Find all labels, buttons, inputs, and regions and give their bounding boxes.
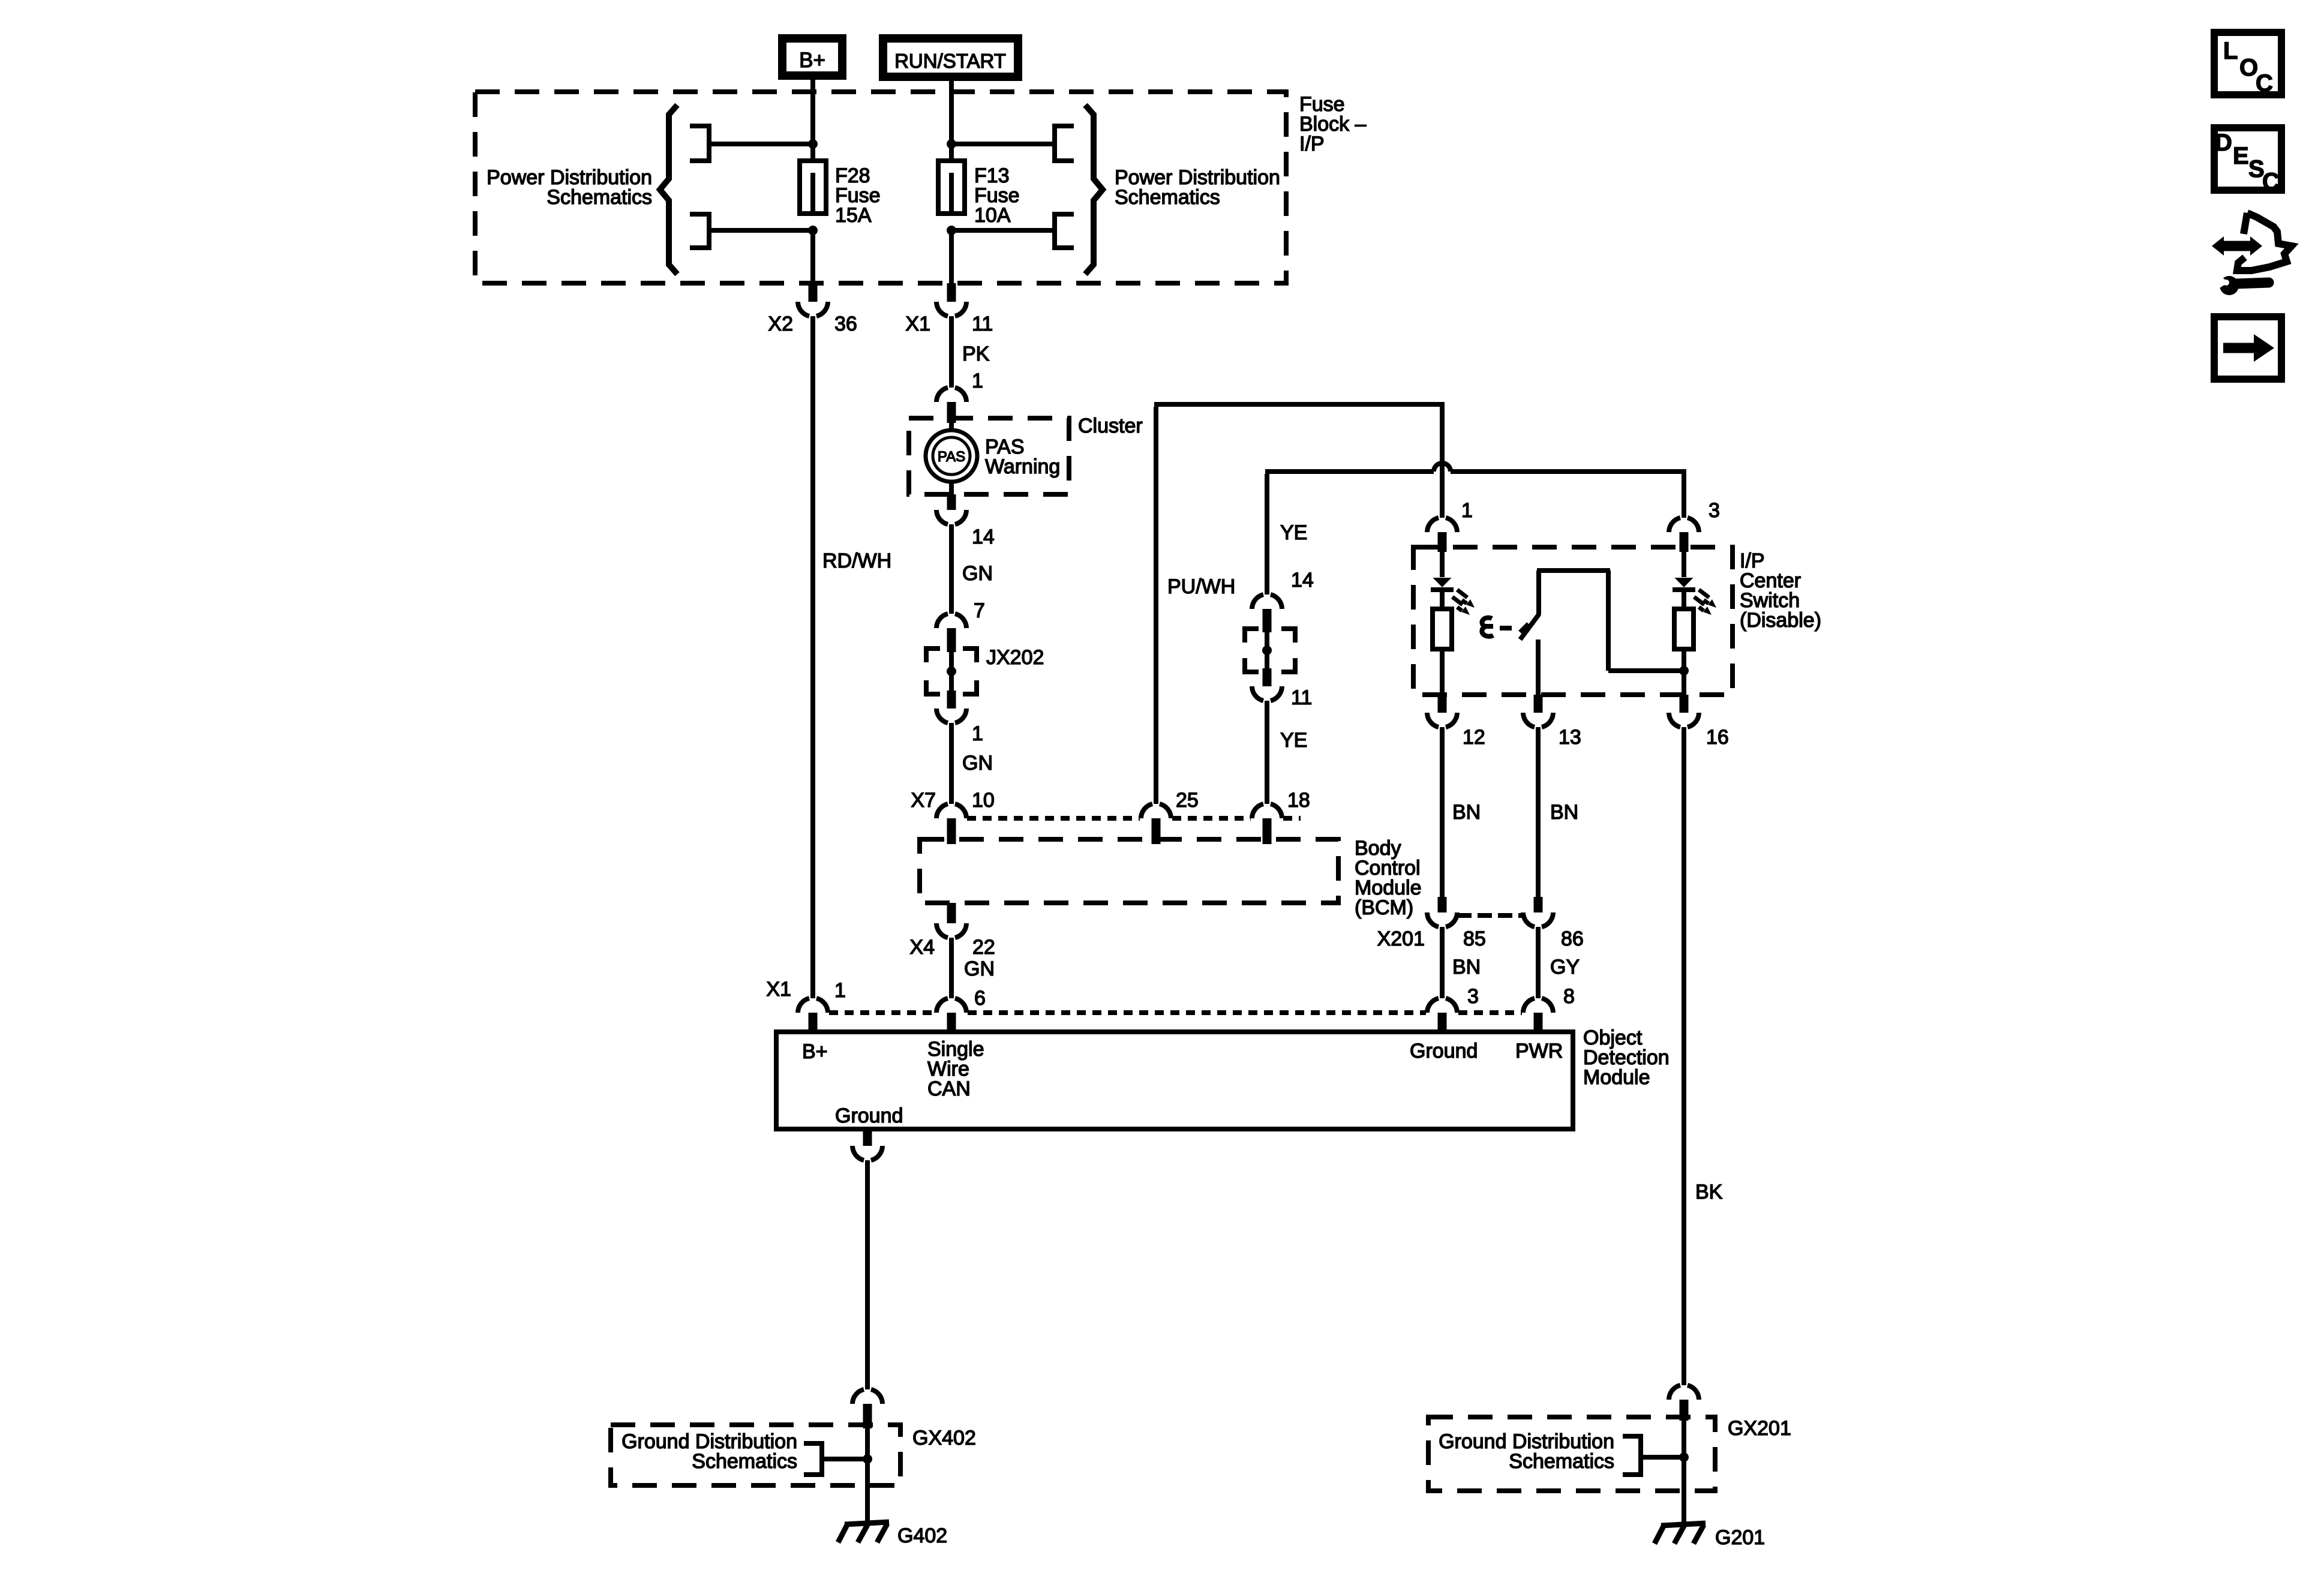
mechanical linkage dashes bbox=[1500, 624, 1529, 632]
connector switch pin 16 bbox=[1669, 695, 1699, 727]
wire BN X201-85 to ODM pin 3 bbox=[1440, 927, 1445, 998]
indicator PAS warning lamp bbox=[926, 430, 977, 482]
node junction above fuse F13 bbox=[947, 139, 956, 149]
label G402 bbox=[897, 1524, 947, 1547]
connector splice entry pin 14 bbox=[1252, 595, 1282, 632]
label X201 bbox=[1377, 927, 1425, 950]
svg-text:GX402: GX402 bbox=[912, 1427, 976, 1449]
svg-text:C: C bbox=[2262, 169, 2280, 195]
label 85 bbox=[1463, 927, 1486, 950]
wire switch lower contact to pin 13 bbox=[1536, 640, 1541, 695]
label PU/WH bbox=[1167, 575, 1235, 598]
label YE (upper) bbox=[1280, 521, 1307, 544]
wire GN cluster to JX202 bbox=[949, 524, 954, 614]
cluster dashed box bbox=[909, 418, 1069, 494]
wire bracket to ground wire GX402 bbox=[822, 1457, 867, 1461]
label 10 bbox=[972, 789, 995, 812]
svg-text:Ground: Ground bbox=[835, 1104, 903, 1127]
label BN (to ODM) bbox=[1452, 956, 1481, 978]
svg-text:1: 1 bbox=[972, 722, 983, 745]
svg-text:8: 8 bbox=[1563, 985, 1575, 1008]
svg-text:X4: X4 bbox=[909, 936, 935, 959]
svg-text:GX201: GX201 bbox=[1728, 1417, 1791, 1440]
svg-text:X1: X1 bbox=[766, 978, 791, 1001]
svg-text:Cluster: Cluster bbox=[1078, 415, 1143, 437]
label BK bbox=[1695, 1181, 1723, 1203]
label YE (lower) bbox=[1280, 729, 1307, 752]
label Single Wire CAN bbox=[927, 1038, 984, 1100]
label Fuse Block - I/P bbox=[1299, 93, 1367, 155]
connector ODM pin 8 bbox=[1523, 998, 1553, 1037]
svg-text:BN: BN bbox=[1452, 801, 1481, 824]
label Ground (ODM pin 3) bbox=[1410, 1040, 1478, 1062]
wire bracket to ground wire GX201 bbox=[1641, 1455, 1684, 1460]
wire GY X201-86 to ODM pin 8 bbox=[1536, 927, 1541, 998]
svg-text:PWR: PWR bbox=[1515, 1040, 1563, 1062]
wire BN pin 12 to X201-85 bbox=[1440, 727, 1445, 897]
wire RD/WH X2-36 to ODM X1-1 bbox=[810, 316, 815, 998]
wire ODM ground to GX402 bbox=[865, 1160, 870, 1389]
svg-text:Schematics: Schematics bbox=[1509, 1450, 1614, 1473]
svg-text:D: D bbox=[2215, 130, 2232, 156]
I/P center switch dashed box bbox=[1413, 547, 1733, 695]
svg-text:11: 11 bbox=[972, 313, 993, 335]
label 13 bbox=[1559, 726, 1581, 749]
LED left emission arrows bbox=[1452, 590, 1475, 615]
wire B+ feed into fuse block bbox=[810, 76, 815, 161]
label BN (left) bbox=[1452, 801, 1481, 824]
ground G402 bbox=[838, 1522, 889, 1542]
svg-text:X2: X2 bbox=[768, 313, 793, 335]
connector ODM ground pin bbox=[852, 1129, 882, 1160]
svg-text:G201: G201 bbox=[1715, 1526, 1765, 1549]
svg-text:7: 7 bbox=[974, 599, 985, 622]
icon shortcut arrow+wrench bbox=[2212, 213, 2292, 295]
label 1 (JX202 exit) bbox=[972, 722, 983, 745]
Object Detection Module box bbox=[776, 1032, 1573, 1129]
label GN bbox=[962, 562, 993, 585]
label PAS Warning bbox=[985, 436, 1060, 478]
node GX402 bbox=[863, 1454, 872, 1464]
label 12 bbox=[1463, 726, 1485, 749]
pin bracket upper right bbox=[1055, 126, 1074, 161]
connector ODM pin 3 bbox=[1427, 998, 1457, 1037]
connector ODM pin 6 bbox=[936, 998, 966, 1037]
svg-text:RUN/START: RUN/START bbox=[894, 50, 1006, 72]
svg-text:6: 6 bbox=[974, 987, 986, 1010]
label 16 bbox=[1706, 726, 1729, 749]
connector switch pin 1 bbox=[1427, 518, 1457, 552]
label GY bbox=[1550, 956, 1580, 978]
svg-text:C: C bbox=[2256, 70, 2273, 97]
svg-text:12: 12 bbox=[1463, 726, 1485, 749]
label Body Control Module (BCM) bbox=[1355, 837, 1422, 919]
label X1 (ODM) bbox=[766, 978, 791, 1001]
svg-text:16: 16 bbox=[1706, 726, 1729, 749]
svg-text:YE: YE bbox=[1280, 521, 1307, 544]
label 86 bbox=[1561, 927, 1584, 950]
connector switch pin 3 bbox=[1669, 518, 1699, 552]
svg-text:BN: BN bbox=[1550, 801, 1578, 824]
label GX402 bbox=[912, 1427, 976, 1449]
node GX201 bbox=[1679, 1452, 1689, 1462]
svg-text:14: 14 bbox=[972, 526, 995, 548]
icon LOC bbox=[2214, 32, 2281, 97]
wire BN pin 13 to X201-86 bbox=[1536, 727, 1541, 897]
svg-text:B+: B+ bbox=[799, 49, 825, 72]
svg-text:G402: G402 bbox=[897, 1524, 947, 1547]
GX201 dashed box bbox=[1428, 1417, 1715, 1491]
ground G201 bbox=[1655, 1523, 1706, 1544]
switch common path bbox=[1537, 571, 1684, 671]
BCM connector face dotted line bbox=[967, 816, 1301, 821]
fuse F28 15A bbox=[800, 161, 826, 214]
wire upper tap to F13 bbox=[951, 142, 1055, 146]
label Ground Distribution Schematics (GX402) bbox=[621, 1430, 797, 1473]
svg-text:25: 25 bbox=[1176, 789, 1199, 812]
label B+ (ODM) bbox=[802, 1040, 828, 1063]
svg-text:3: 3 bbox=[1709, 499, 1720, 522]
svg-text:GY: GY bbox=[1550, 956, 1580, 978]
svg-text:18: 18 bbox=[1287, 789, 1310, 812]
connector X201 pin 86 bbox=[1523, 897, 1553, 927]
connector X201 pin 85 bbox=[1427, 897, 1457, 927]
svg-text:(BCM): (BCM) bbox=[1355, 896, 1413, 919]
label 1 (switch pin) bbox=[1461, 499, 1473, 522]
connector ODM X1 pin 1 bbox=[798, 998, 828, 1037]
svg-text:15A: 15A bbox=[835, 204, 872, 227]
label Ground (ODM bottom) bbox=[835, 1104, 903, 1127]
fuse block I/P dashed box bbox=[475, 92, 1286, 283]
svg-text:1: 1 bbox=[834, 979, 846, 1002]
svg-text:Module: Module bbox=[1583, 1066, 1650, 1089]
svg-text:PU/WH: PU/WH bbox=[1167, 575, 1235, 598]
connector switch pin 13 bbox=[1523, 695, 1553, 727]
connector cluster pin 14 bbox=[936, 494, 966, 524]
connector JX202 exit pin 1 bbox=[936, 691, 966, 723]
ODM connector face dotted line bbox=[829, 1010, 1522, 1015]
label PWR bbox=[1515, 1040, 1563, 1062]
bracket GX402 bbox=[804, 1443, 822, 1475]
node junction above fuse F28 bbox=[808, 139, 818, 149]
label X1 bbox=[905, 313, 930, 335]
node junction below fuse F28 bbox=[808, 226, 818, 235]
label 6 (ODM pin) bbox=[974, 987, 986, 1010]
svg-text:(Disable): (Disable) bbox=[1740, 609, 1821, 632]
label X2 bbox=[768, 313, 793, 335]
wire PU/WH BCM pin 25 up and over to switch pin 1 bbox=[1154, 404, 1445, 804]
wire PAS lamp to cluster pin 14 bbox=[949, 480, 954, 494]
svg-text:E: E bbox=[2233, 143, 2249, 169]
svg-text:10: 10 bbox=[972, 789, 995, 812]
brace right Power Distribution bbox=[1085, 105, 1103, 274]
power symbol RUN/START bbox=[883, 38, 1018, 77]
label 1 (ODM pin) bbox=[834, 979, 846, 1002]
svg-text:GN: GN bbox=[962, 562, 993, 585]
label Cluster bbox=[1078, 415, 1143, 437]
bracket GX201 bbox=[1623, 1436, 1641, 1475]
svg-text:CAN: CAN bbox=[927, 1077, 971, 1100]
svg-text:BK: BK bbox=[1695, 1181, 1723, 1203]
connector splice exit pin 11 bbox=[1252, 668, 1282, 701]
svg-text:GN: GN bbox=[962, 752, 993, 775]
connector GX201 entry bbox=[1669, 1385, 1699, 1421]
svg-text:Schematics: Schematics bbox=[547, 186, 652, 209]
label 36 bbox=[834, 313, 857, 335]
svg-text:BN: BN bbox=[1452, 956, 1481, 978]
wire RUN/START feed into fuse block bbox=[949, 77, 954, 161]
label I/P Center Switch (Disable) bbox=[1740, 550, 1821, 632]
resistor right bbox=[1674, 609, 1694, 649]
BCM dashed box bbox=[920, 839, 1338, 903]
label 8 (ODM pin) bbox=[1563, 985, 1575, 1008]
wire GN BCM X4-22 to ODM pin 6 bbox=[949, 938, 954, 998]
svg-text:PAS: PAS bbox=[938, 449, 965, 465]
splice pack (YE) bbox=[1245, 629, 1295, 672]
node junction below fuse F13 bbox=[947, 226, 956, 235]
label F13 Fuse 10A bbox=[974, 164, 1020, 227]
svg-text:22: 22 bbox=[972, 936, 995, 959]
label 11 bbox=[972, 313, 993, 335]
X201 connector dashed line bbox=[1457, 913, 1524, 918]
brace left Power Distribution bbox=[660, 105, 677, 274]
power symbol B+ bbox=[782, 38, 842, 76]
icon forward arrow bbox=[2214, 317, 2281, 379]
svg-text:RD/WH: RD/WH bbox=[822, 550, 891, 572]
wire through GX201 to G201 bbox=[1682, 1421, 1686, 1524]
icon DESC bbox=[2214, 128, 2281, 195]
svg-text:11: 11 bbox=[1291, 686, 1312, 709]
svg-text:PK: PK bbox=[962, 343, 990, 365]
fuse F13 10A bbox=[938, 161, 965, 214]
label 25 bbox=[1176, 789, 1199, 812]
label 22 bbox=[972, 936, 995, 959]
label 14 bbox=[972, 526, 995, 548]
pin bracket lower left bbox=[690, 214, 709, 248]
svg-text:3: 3 bbox=[1467, 985, 1479, 1008]
svg-text:JX202: JX202 bbox=[986, 646, 1044, 669]
svg-text:86: 86 bbox=[1561, 927, 1584, 950]
svg-text:Ground: Ground bbox=[1410, 1040, 1478, 1062]
label 14 (splice entry) bbox=[1291, 569, 1314, 592]
connector BCM X4 pin 22 bbox=[936, 903, 966, 938]
label F28 Fuse 15A bbox=[835, 164, 881, 227]
svg-text:YE: YE bbox=[1280, 729, 1307, 752]
LED right emission arrows bbox=[1694, 590, 1716, 615]
wire upper tap to F28 bbox=[709, 142, 813, 146]
switch blade bbox=[1520, 614, 1539, 640]
connector BCM pin 25 bbox=[1141, 804, 1171, 844]
label 18 bbox=[1287, 789, 1310, 812]
LED left (enable indicator) bbox=[1431, 547, 1454, 609]
svg-text:Schematics: Schematics bbox=[1115, 186, 1220, 209]
wire YE BCM pin 18 up to switch pin 3, with hop over pin-1 wire bbox=[1265, 463, 1686, 595]
label GN (X4) bbox=[964, 957, 995, 980]
wire PK X1-11 to cluster pin 1 bbox=[949, 316, 954, 388]
svg-text:I/P: I/P bbox=[1299, 133, 1325, 155]
wire lower tap from F28 bbox=[709, 228, 813, 233]
label 7 bbox=[974, 599, 985, 622]
label G201 bbox=[1715, 1526, 1765, 1549]
svg-text:GN: GN bbox=[964, 957, 995, 980]
wire lower tap from F13 bbox=[951, 228, 1055, 233]
detent symbol bbox=[1482, 618, 1493, 637]
label 3 (switch pin) bbox=[1709, 499, 1720, 522]
connector GX402 entry bbox=[852, 1389, 882, 1428]
svg-text:85: 85 bbox=[1463, 927, 1486, 950]
svg-text:1: 1 bbox=[1461, 499, 1473, 522]
label RD/WH bbox=[822, 550, 891, 572]
LED right (disable indicator) bbox=[1673, 547, 1695, 609]
wire through GX402 to G402 bbox=[865, 1428, 870, 1523]
resistor left bbox=[1433, 609, 1452, 649]
wire into PAS lamp bbox=[949, 418, 954, 432]
connector JX202 entry pin 7 bbox=[936, 614, 966, 652]
svg-text:X7: X7 bbox=[911, 789, 936, 812]
label PK bbox=[962, 343, 990, 365]
wire F28 to X2 bbox=[810, 230, 815, 283]
connector BCM pin 18 bbox=[1252, 804, 1282, 844]
connector BCM X7 pin 10 bbox=[936, 804, 966, 844]
label Ground Distribution Schematics (GX201) bbox=[1439, 1430, 1614, 1473]
svg-text:36: 36 bbox=[834, 313, 857, 335]
wire left branch to pin 12 bbox=[1440, 649, 1445, 695]
svg-text:X1: X1 bbox=[905, 313, 930, 335]
node switch to pin16 branch bbox=[1679, 666, 1689, 676]
label JX202 bbox=[986, 646, 1044, 669]
label X4 bbox=[909, 936, 935, 959]
splice pack JX202 bbox=[926, 649, 977, 694]
wire F13 to X1 bbox=[949, 230, 954, 283]
wire right branch through node to pin 16 bbox=[1682, 649, 1686, 695]
connector X1 pin 11 bbox=[936, 283, 966, 316]
svg-text:1: 1 bbox=[972, 370, 983, 392]
label GX201 bbox=[1728, 1417, 1791, 1440]
svg-text:13: 13 bbox=[1559, 726, 1581, 749]
label 1 (cluster pin) bbox=[972, 370, 983, 392]
label 11 (splice exit) bbox=[1291, 686, 1312, 709]
svg-text:X201: X201 bbox=[1377, 927, 1425, 950]
label BN (right) bbox=[1550, 801, 1578, 824]
svg-text:L: L bbox=[2223, 38, 2238, 64]
label Power Distribution Schematics (right) bbox=[1115, 166, 1280, 209]
pin bracket upper left bbox=[690, 126, 709, 161]
label Power Distribution Schematics (left) bbox=[487, 166, 652, 209]
svg-text:Schematics: Schematics bbox=[692, 1450, 797, 1473]
wire GN JX202 to BCM X7-10 bbox=[949, 723, 954, 804]
wire BK switch pin 16 to GX201 bbox=[1682, 727, 1686, 1385]
connector cluster pin 1 bbox=[936, 388, 966, 423]
svg-text:14: 14 bbox=[1291, 569, 1314, 592]
svg-text:10A: 10A bbox=[974, 204, 1011, 227]
label GN (lower) bbox=[962, 752, 993, 775]
pin bracket lower right bbox=[1055, 214, 1074, 248]
label Object Detection Module bbox=[1583, 1026, 1670, 1089]
svg-text:B+: B+ bbox=[802, 1040, 828, 1063]
label 3 (ODM pin) bbox=[1467, 985, 1479, 1008]
wire YE splice to BCM pin 18 bbox=[1265, 701, 1269, 804]
svg-text:Warning: Warning bbox=[985, 455, 1060, 478]
wire pin-1 drop below hop bbox=[1440, 450, 1445, 518]
connector switch pin 12 bbox=[1427, 695, 1457, 727]
GX402 dashed box bbox=[611, 1425, 900, 1485]
connector X2 pin 36 bbox=[798, 283, 828, 316]
label X7 bbox=[911, 789, 936, 812]
